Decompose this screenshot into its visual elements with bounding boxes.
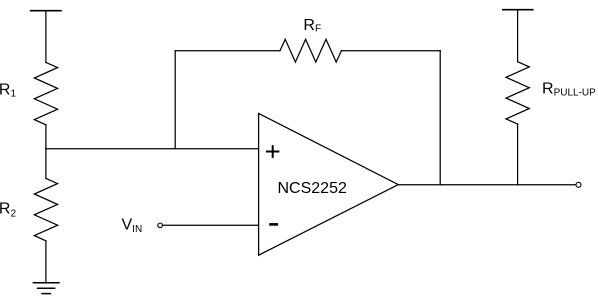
wire R2 bottom to ground <box>45 241 47 283</box>
wire feedback down to output <box>439 51 441 185</box>
op-amp + symbol <box>267 146 279 157</box>
op-amp - symbol <box>271 223 277 226</box>
op-amp U1 <box>259 113 399 255</box>
svg-text:VIN: VIN <box>122 217 143 235</box>
resistor RF <box>280 39 341 62</box>
resistor R pull-up <box>506 62 529 124</box>
power rail top-right <box>503 9 533 11</box>
svg-text:R2: R2 <box>0 201 16 220</box>
wire node A to R2 <box>45 149 47 179</box>
wire top-left rail to R1 <box>45 11 47 63</box>
wire Vin to op-amp - input <box>163 224 259 226</box>
wire R1 bottom to node A <box>45 125 47 149</box>
power rail top-left <box>31 10 61 12</box>
wire top-right rail to R pull-up <box>517 10 519 62</box>
wire RF right <box>341 50 440 52</box>
terminal Vin <box>158 223 163 228</box>
resistor R1 <box>34 62 57 124</box>
svg-text:RF: RF <box>303 17 321 35</box>
ground <box>33 282 59 284</box>
wire R pull-up bottom to output <box>517 124 519 185</box>
wire node A to op-amp + input <box>46 148 259 150</box>
wire feedback tap vertical <box>174 51 176 149</box>
svg-text:R1: R1 <box>0 82 16 100</box>
wire op-amp output <box>398 184 576 186</box>
svg-text:NCS2252: NCS2252 <box>278 180 347 197</box>
svg-text:RPULL-UP: RPULL-UP <box>542 81 596 99</box>
resistor R2 <box>34 178 57 240</box>
terminal output <box>576 182 581 187</box>
wire feedback horizontal left <box>175 50 280 52</box>
